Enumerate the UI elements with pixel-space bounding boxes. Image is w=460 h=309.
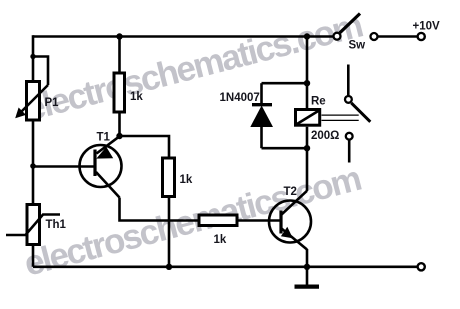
diode 1N4007 bbox=[220, 92, 274, 127]
junction diode bottom / relay branch bbox=[304, 145, 310, 151]
wire T1 base bbox=[33, 165, 95, 168]
wire R3 to T2 base bbox=[239, 219, 280, 222]
svg-text:+10V: +10V bbox=[413, 21, 441, 33]
ground bbox=[295, 285, 320, 289]
junction top rail / relay branch bbox=[304, 33, 310, 39]
svg-text:T2: T2 bbox=[284, 186, 297, 198]
wire relay contact bottom stub bbox=[348, 140, 351, 163]
wire diode bottom link bbox=[262, 147, 308, 150]
switch Sw left terminal bbox=[334, 33, 341, 40]
resistor R1 1k bbox=[114, 73, 143, 112]
svg-text:T1: T1 bbox=[97, 132, 111, 144]
wire ground stub bbox=[306, 267, 309, 285]
junction node A bbox=[116, 133, 122, 139]
wire Th1 bottom to rail bbox=[32, 246, 35, 267]
wire switch right to +10V terminal bbox=[378, 35, 418, 38]
wire bottom rail bbox=[33, 265, 417, 268]
svg-text:1N4007: 1N4007 bbox=[220, 92, 260, 104]
wire diode anode stub bbox=[260, 83, 263, 105]
+10V terminal bbox=[418, 33, 425, 40]
relay Re coil bbox=[296, 96, 340, 143]
thermistor Th1 bbox=[6, 205, 67, 245]
svg-text:P1: P1 bbox=[45, 97, 60, 109]
svg-text:Sw: Sw bbox=[349, 40, 366, 52]
wire P1 bottom to node bbox=[32, 122, 35, 167]
relay mechanical link bbox=[322, 115, 359, 120]
wire rail to relay coil bbox=[306, 37, 309, 109]
resistor R2 1k bbox=[163, 158, 193, 197]
wire T1 collector to R3 bbox=[120, 198, 198, 221]
svg-text:Th1: Th1 bbox=[46, 219, 67, 231]
transistor T1 bbox=[80, 132, 122, 198]
junction top rail / R1 bbox=[116, 33, 122, 39]
resistor R3 1k bbox=[199, 215, 237, 246]
wire T2 emitter to rail bbox=[306, 249, 309, 267]
svg-text:1k: 1k bbox=[130, 91, 143, 103]
wire rail to R1 bbox=[118, 37, 121, 72]
svg-text:Re: Re bbox=[311, 96, 326, 108]
junction T2 emitter / bottom rail bbox=[304, 264, 310, 270]
svg-text:1k: 1k bbox=[214, 234, 227, 246]
svg-text:1k: 1k bbox=[180, 174, 193, 186]
wire node A to R2 top bbox=[120, 136, 170, 157]
wire diode cathode stub bbox=[260, 126, 263, 148]
junction P1/Th1/T1 base bbox=[30, 163, 36, 169]
junction R2 / bottom rail bbox=[166, 264, 172, 270]
switch Sw right terminal bbox=[371, 33, 378, 40]
potentiometer P1 bbox=[15, 82, 59, 121]
wire R2 bottom to ground rail bbox=[168, 198, 171, 267]
transistor T2 bbox=[269, 186, 311, 250]
junction P1 wiper node bbox=[30, 54, 35, 59]
wire left vertical (rail to P1) bbox=[32, 35, 35, 80]
wire top rail bbox=[33, 35, 333, 38]
relay contact blade bbox=[351, 103, 370, 122]
output terminal bottom right bbox=[418, 263, 425, 270]
wire R1 to node A bbox=[118, 114, 121, 137]
wire relay coil to T2 collector bbox=[306, 127, 309, 191]
relay contact top terminal bbox=[345, 96, 352, 103]
wire diode top link bbox=[262, 82, 308, 85]
switch Sw blade bbox=[340, 14, 360, 33]
svg-text:200Ω: 200Ω bbox=[311, 130, 339, 142]
wire relay contact top stub bbox=[347, 65, 350, 96]
wire P1 wiper to top terminal bbox=[33, 57, 48, 86]
relay contact bottom terminal bbox=[346, 133, 353, 140]
junction diode top / relay branch bbox=[304, 80, 310, 86]
wire node to Th1 top bbox=[32, 167, 35, 204]
